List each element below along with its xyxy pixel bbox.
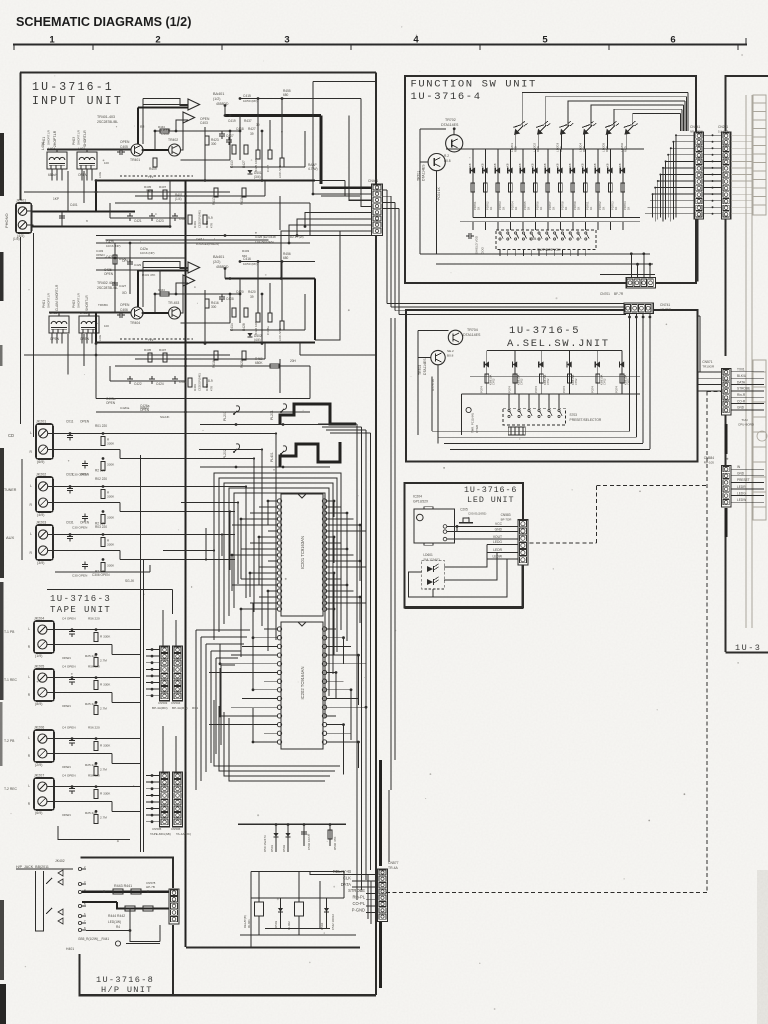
svg-text:(1/4): (1/4) [175,197,182,201]
svg-text:KB: KB [531,163,535,167]
svg-text:CY02: CY02 [602,378,606,385]
faint circle main unit [757,431,767,441]
dashed bus led unit to main [530,542,597,544]
capacitor ch2 mid [172,378,178,380]
svg-text:LED UNIT: LED UNIT [467,495,514,505]
svg-text:SCHEMATIC DIAGRAMS (1/2): SCHEMATIC DIAGRAMS (1/2) [16,15,191,29]
svg-text:R437: R437 [244,119,252,123]
svg-text:C415: C415 [243,94,251,98]
svg-text:10/16 (NP): 10/16 (NP) [106,244,121,248]
svg-text:TR10GR: TR10GR [702,365,715,369]
svg-text:TR-4A: TR-4A [388,866,399,870]
resistor R7011 [596,183,600,192]
led LD201 [514,126,523,135]
svg-text:H401: H401 [66,947,74,951]
wire tape rails into connectors [146,649,160,651]
component column R427 [244,145,248,154]
wire long feeders from selector clusters [205,433,276,435]
svg-text:300: 300 [211,142,217,146]
svg-text:OPEN: OPEN [120,140,130,144]
vertical feeder pair left of strips [140,455,142,852]
svg-text:B0.8: B0.8 [444,159,451,163]
svg-text:R431 47K: R431 47K [142,273,155,277]
svg-text:D50 1S2473: D50 1S2473 [263,835,267,852]
resistor CD shunt 1 [101,437,105,446]
connector CN504 BP-4A(RC) [173,646,183,701]
svg-text:TAPE UNIT: TAPE UNIT [50,605,111,615]
svg-text:OPEN: OPEN [62,704,71,708]
svg-text:330K: 330K [107,463,115,467]
svg-text:R 330K: R 330K [100,683,111,687]
wire selector ground bus [21,459,23,560]
svg-text:TUN: TUN [741,418,747,422]
svg-text:C423: C423 [156,219,164,223]
main unit partial box [725,75,768,77]
svg-text:TAPE-MIC(AB): TAPE-MIC(AB) [150,832,171,836]
svg-text:S703: S703 [570,413,578,417]
capacitor cluster ch2 [127,378,133,380]
svg-text:CD: CD [8,433,14,438]
diode cluster D501 D502 [238,824,346,826]
inductor L403 [77,152,97,169]
svg-text:PH01: PH01 [42,300,46,308]
wire T-1 PB rails [56,629,141,631]
svg-text:R56 220: R56 220 [88,617,100,621]
jack contact arrows [58,870,63,876]
svg-text:(2/2): (2/2) [213,260,220,264]
resistor ch1 mid a [148,190,152,199]
svg-text:C406: C406 [120,308,128,312]
net GND main unit [731,409,764,411]
wire a sel to CN571 [698,371,722,373]
svg-text:Rin-R: Rin-R [737,393,746,397]
wire bundle top rail to right [318,423,357,425]
svg-text:C419: C419 [228,119,236,123]
capacitor TUNER lower open [82,516,88,518]
diode D741 [486,351,488,395]
resistor R701 [471,183,475,192]
svg-text:R417: R417 [212,197,216,205]
svg-text:CO-R: CO-R [737,399,746,403]
svg-text:(3/4): (3/4) [254,175,261,179]
resistor T-2 PB a [94,742,98,751]
wire ch2 right exit [300,354,376,356]
resistor network ch1 lower [188,215,192,224]
svg-text:OPEN: OPEN [140,406,149,410]
svg-text:R444 R442: R444 R442 [108,914,125,918]
jack T-1 PB [34,621,54,653]
wire ch2 inductor pin drops [51,333,53,344]
svg-text:OPEN: OPEN [120,303,130,307]
relay cluster RL401 RL402 [251,871,344,873]
svg-text:CPU-BORD: CPU-BORD [738,423,755,427]
svg-text:39: 39 [250,132,254,136]
svg-text:C540 10/16: C540 10/16 [307,834,311,850]
svg-text:PO74: PO74 [534,386,538,393]
svg-text:TR402: TR402 [168,138,178,142]
svg-text:C429: C429 [134,263,142,267]
svg-text:1K: 1K [476,207,480,210]
plug PL401 [283,446,287,452]
svg-text:CN741: CN741 [660,303,670,307]
svg-text:R443: R443 [158,288,165,292]
svg-text:PL401: PL401 [270,452,274,462]
svg-text:OPEN: OPEN [50,337,60,341]
svg-text:TR703: TR703 [418,365,422,375]
svg-text:BF-7DR: BF-7DR [501,518,513,522]
resistor R705 [521,183,525,192]
wire CN741 drops [629,314,631,432]
svg-text:DATA: DATA [341,882,352,887]
svg-text:LED(1W): LED(1W) [108,920,121,924]
thick bus ch2 output [225,277,315,279]
wire inductors to TR404 base [49,312,131,314]
wire function left bus [419,129,421,254]
svg-text:C011: C011 [66,420,74,424]
svg-text:LD206: LD206 [620,143,624,152]
svg-text:660: 660 [242,254,247,258]
wire phono lower jumper a [96,257,186,259]
svg-text:(4/9): (4/9) [37,513,44,517]
wire ch1 to right columns [240,98,321,100]
svg-text:R419: R419 [240,197,244,205]
diode D7012 [609,149,611,218]
wire ch2 lower rails [135,358,265,360]
svg-text:R420: R420 [240,360,244,368]
led LD206 [625,126,634,135]
svg-text:KB: KB [468,163,472,167]
svg-text:BP-4A(RC): BP-4A(RC) [172,706,187,710]
svg-text:R02 220: R02 220 [95,477,107,481]
svg-text:R427: R427 [248,127,256,131]
svg-text:LEDW: LEDW [492,555,502,559]
resistor R420 [242,351,246,360]
net LEDG remote [731,495,764,497]
op-amp BA401 c [188,262,200,273]
svg-text:1U-3716-8: 1U-3716-8 [96,975,154,985]
svg-text:(6/9): (6/9) [37,460,44,464]
resistor TUNER shunt 1 [101,490,105,499]
wire ch1 bus top [143,104,188,106]
svg-text:C031: C031 [66,521,74,525]
svg-text:PL203: PL203 [223,411,227,421]
wire ch2 transistor link [143,312,169,314]
resistor R744 [568,374,572,383]
svg-text:C42Da: C42Da [120,406,130,410]
wire rails under diodes [473,217,640,219]
svg-text:JK202: JK202 [36,473,46,477]
resistor T-2 REC a [94,790,98,799]
svg-text:L: L [28,627,30,631]
resistor R741 [485,374,489,383]
svg-text:SHORT.LR: SHORT.LR [83,130,87,147]
svg-text:KB: KB [593,163,597,167]
svg-text:BP-4A(RD): BP-4A(RD) [152,706,167,710]
svg-text:RL401: RL401 [247,919,251,928]
svg-text:6: 6 [670,35,675,46]
svg-text:R409: R409 [149,167,157,171]
capacitor C704 [468,233,470,239]
component column R428 [244,308,248,317]
svg-text:R 330K: R 330K [100,792,111,796]
wire ch1 lower rails [135,195,265,197]
svg-text:RP-105: RP-105 [704,461,715,465]
diode D705 [522,149,524,218]
svg-text:CO-PL: CO-PL [352,901,365,906]
svg-text:R.2: R.2 [444,154,449,158]
svg-text:C30 OPEN: C30 OPEN [72,574,87,578]
net GND remote [731,475,764,477]
column ruler line [13,44,747,46]
capacitor C421 cluster [127,215,133,217]
resistor R7013 [621,183,625,192]
svg-text:2SC2878L/BL: 2SC2878L/BL [97,120,118,124]
resistor T-1 REC a [94,681,98,690]
svg-text:CY02: CY02 [546,378,550,385]
svg-text:L: L [30,431,32,435]
diode D708 [559,149,561,218]
wire phono to ground cap [61,212,63,227]
svg-text:CY02: CY02 [520,378,524,385]
wire bottom bus rails [186,947,360,949]
connector CN577 [378,869,388,921]
svg-text:2: 2 [155,35,160,46]
connector CN741 [624,303,653,314]
svg-text:4: 4 [413,35,419,46]
svg-text:C42U: C42U [196,237,204,241]
comb connector a sel [508,427,525,435]
component column C413 [232,145,236,154]
svg-text:680K: 680K [255,361,263,365]
svg-text:C021: C021 [66,473,74,477]
wire IC201 right pin stubs [326,500,334,502]
svg-text:PL202: PL202 [223,449,227,459]
svg-text:PC04 1K: PC04 1K [437,186,441,200]
thick bus segments on main unit edge [725,424,728,454]
resistor R706 [534,183,538,192]
svg-text:R25 220: R25 220 [85,654,97,658]
plug PL203 [236,406,240,412]
svg-text:GOO: GOO [481,246,485,254]
net BLK/U main unit [731,377,764,379]
resistor R709 [571,183,575,192]
svg-text:BF-7R: BF-7R [614,292,624,296]
svg-text:TRKBC: TRKBC [98,303,109,307]
wire LD601 to connector [444,544,487,567]
svg-text:CN241: CN241 [690,125,700,129]
diode D503 [280,898,282,928]
wire TUNER R rail [55,502,120,504]
inductor L404 [47,152,67,169]
resistor ch2 mid a [148,353,152,362]
input unit 1U-3716-1 outline [20,72,376,74]
svg-text:LOG: LOG [98,334,102,341]
capacitor C427 [112,282,118,284]
svg-text:OPEN: OPEN [62,656,71,660]
resistor T-2 REC b [94,814,98,823]
svg-text:R405: R405 [144,185,152,189]
svg-text:R25 220: R25 220 [85,811,97,815]
wire IC204 to nets [456,526,458,531]
op-amp BA401 d [183,275,195,286]
svg-text:680: 680 [283,256,289,260]
net LEDR remote [731,488,764,490]
svg-text:C4 OPEN: C4 OPEN [62,726,76,730]
svg-text:PL201: PL201 [270,410,274,420]
right column components ch2 [256,313,260,322]
resistor R424 [205,299,209,308]
transistor TR701 [428,154,445,171]
jack T-1 REC [34,669,54,701]
svg-text:XD: XD [122,291,127,295]
capacitor CD coupling [67,435,73,437]
wire phono ground bus [33,233,35,437]
resistor T-1 PB a [94,633,98,642]
wire ch1 opamp feedback [143,99,188,106]
svg-text:CN401: CN401 [368,179,378,183]
svg-text:1K: 1K [601,207,605,210]
wire right-side vertical bundle [356,424,358,900]
wire staircase into CN241 [676,134,694,136]
svg-text:B0.8: B0.8 [447,354,454,358]
wire IC202 right pin stubs [326,628,336,630]
svg-text:5: 5 [542,35,548,46]
svg-text:TR702: TR702 [445,118,456,122]
svg-text:SHORT.LR: SHORT.LR [47,129,51,145]
svg-text:CN577: CN577 [388,861,399,865]
svg-text:Rin-PL: Rin-PL [352,895,365,900]
svg-text:(3/9): (3/9) [37,561,44,565]
function sw unit box [405,76,696,283]
svg-text:AUX: AUX [6,535,15,540]
wire AUX L rail [55,534,235,536]
resistor ch2 mid b [163,353,167,362]
svg-text:(1/9): (1/9) [35,654,42,658]
net STROBE main unit [731,390,764,392]
svg-text:PH01: PH01 [42,137,46,145]
svg-text:L: L [28,736,30,740]
svg-text:SHIELD VDD: SHIELD VDD [475,235,479,254]
svg-text:(1/2): (1/2) [213,97,220,101]
svg-text:CN201: CN201 [718,125,728,129]
svg-text:C205: C205 [460,508,468,512]
svg-text:JK206: JK206 [34,726,44,730]
svg-text:OPEN: OPEN [62,813,71,817]
diode D702 [484,149,486,218]
svg-text:JK401: JK401 [16,199,26,203]
hp unit outline [81,858,174,889]
transistor TR401 [131,144,143,156]
diode D703 [497,149,499,218]
wire TUNER L rail [55,486,235,488]
svg-text:TR704: TR704 [467,328,478,332]
scan artifact blobs left edge [0,133,4,196]
svg-text:STROBE: STROBE [348,888,365,893]
svg-text:C408: C408 [226,297,234,301]
svg-text:C427: C427 [119,284,127,288]
jack JK402 contacts [78,867,81,870]
wire a sel vertical left [460,394,462,435]
resistor R743 [539,374,543,383]
svg-text:300: 300 [211,305,217,309]
diode D504 [326,898,328,928]
jack T-2 PB [34,730,54,762]
wire ch2 opamp out [211,239,269,241]
svg-text:JK207: JK207 [34,774,44,778]
svg-text:1K: 1K [576,207,580,210]
svg-text:R407: R407 [159,185,167,189]
svg-text:C406: C406 [161,132,169,136]
svg-text:CN506: CN506 [171,827,181,831]
svg-text:R407: R407 [159,348,167,352]
svg-text:2.7M: 2.7M [100,706,107,710]
svg-text:1U-3: 1U-3 [735,643,761,653]
IC202 TC9164AN [281,622,323,749]
scan texture right edge [757,870,768,1024]
wire ch2 left edge feed [24,354,96,356]
svg-text:BA401: BA401 [213,255,224,259]
svg-text:R40D: R40D [205,384,209,391]
svg-text:1U-3716-4: 1U-3716-4 [411,91,482,103]
resistor R746 [620,374,624,383]
svg-text:LEDR: LEDR [493,548,502,552]
wire ch2 bottom rail [96,398,310,400]
svg-text:SNL1214(C): SNL1214(C) [423,558,440,562]
svg-text:39: 39 [256,123,260,127]
svg-text:9-9: 9-9 [208,216,213,220]
svg-text:LEDR: LEDR [737,485,746,489]
switch box S703 dashed [503,408,566,425]
jack CD [36,424,53,459]
svg-text:A.SEL.SW.JNIT: A.SEL.SW.JNIT [507,338,610,350]
svg-text:8-9: 8-9 [208,379,213,383]
wire mesh ch1 [155,130,240,132]
vertical thick bus right of box [379,760,382,866]
svg-text:1K: 1K [514,207,518,210]
svg-text:L: L [30,532,32,536]
diode D709 [572,149,574,218]
resistor T-2 PB b [94,766,98,775]
wire net label feeders [367,875,369,920]
svg-text:H/P UNIT: H/P UNIT [101,985,153,995]
svg-text:R403: R403 [193,221,197,228]
svg-text:KB: KB [581,163,585,167]
svg-text:OPEN: OPEN [80,420,90,424]
svg-text:(1/5): (1/5) [13,237,20,241]
IC204 pins [443,525,447,529]
svg-text:OPEN: OPEN [80,337,90,341]
svg-text:TUNER: TUNER [4,488,17,492]
svg-text:330K: 330K [107,564,115,568]
wire CN201 right stubs faint [731,134,752,136]
svg-text:CN584: CN584 [704,456,714,460]
svg-text:PRESET/SELECTOR: PRESET/SELECTOR [570,418,602,422]
resistor ch2 fb [160,292,169,296]
capacitor C408 [219,296,225,298]
svg-text:C403: C403 [200,121,208,125]
resistor T-1 REC b [94,705,98,714]
connector CN584 [721,466,730,508]
resistor R704 [509,183,513,192]
svg-text:TMR. P111(4/6): TMR. P111(4/6) [471,413,475,433]
thick bus ch1 return [96,179,315,181]
wire ch2 feeds to CN401 bundle [315,231,340,340]
svg-text:GP1U52X: GP1U52X [413,500,429,504]
svg-text:JK205: JK205 [34,665,44,669]
wire ch1 left edge feed [24,191,96,193]
resistor R7010 [584,183,588,192]
svg-text:BLK/U: BLK/U [737,374,747,378]
